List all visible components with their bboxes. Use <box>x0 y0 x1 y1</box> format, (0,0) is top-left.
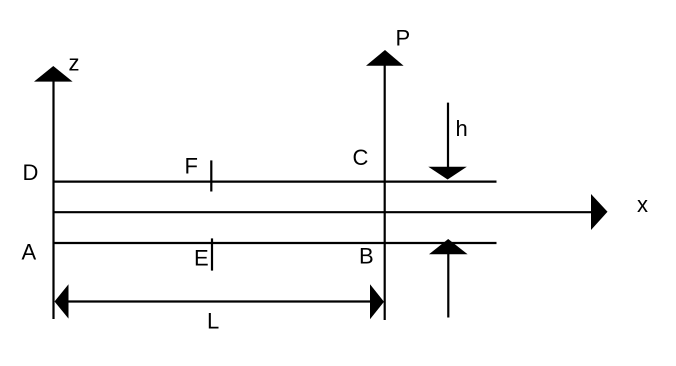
svg-text:L: L <box>207 309 219 334</box>
svg-text:x: x <box>637 192 648 217</box>
h dimension up-arrow line <box>447 254 449 318</box>
z-axis arrowhead <box>34 66 73 82</box>
svg-text:P: P <box>396 26 411 51</box>
x-axis arrowhead <box>591 194 608 230</box>
svg-text:D: D <box>23 160 39 185</box>
svg-text:F: F <box>185 153 198 178</box>
z-axis line <box>52 80 54 319</box>
svg-text:h: h <box>456 116 468 141</box>
svg-text:C: C <box>353 145 369 170</box>
force P line <box>384 64 386 320</box>
h dimension down arrowhead <box>428 167 467 180</box>
beam top surface line DC <box>53 181 497 183</box>
L dimension line <box>64 300 373 302</box>
beam bottom surface line AB <box>53 242 497 244</box>
tick mark at E <box>211 238 213 270</box>
x-axis line <box>53 211 592 213</box>
h dimension up arrowhead <box>429 239 468 254</box>
svg-text:z: z <box>69 51 80 76</box>
svg-text:A: A <box>22 239 37 264</box>
tick mark at F <box>210 160 212 191</box>
svg-text:E: E <box>194 245 209 270</box>
svg-text:B: B <box>359 244 374 269</box>
L dimension right arrowhead <box>370 284 384 319</box>
L dimension left arrowhead <box>55 284 69 318</box>
force P arrowhead <box>366 50 404 66</box>
h dimension down-arrow line <box>447 103 449 168</box>
